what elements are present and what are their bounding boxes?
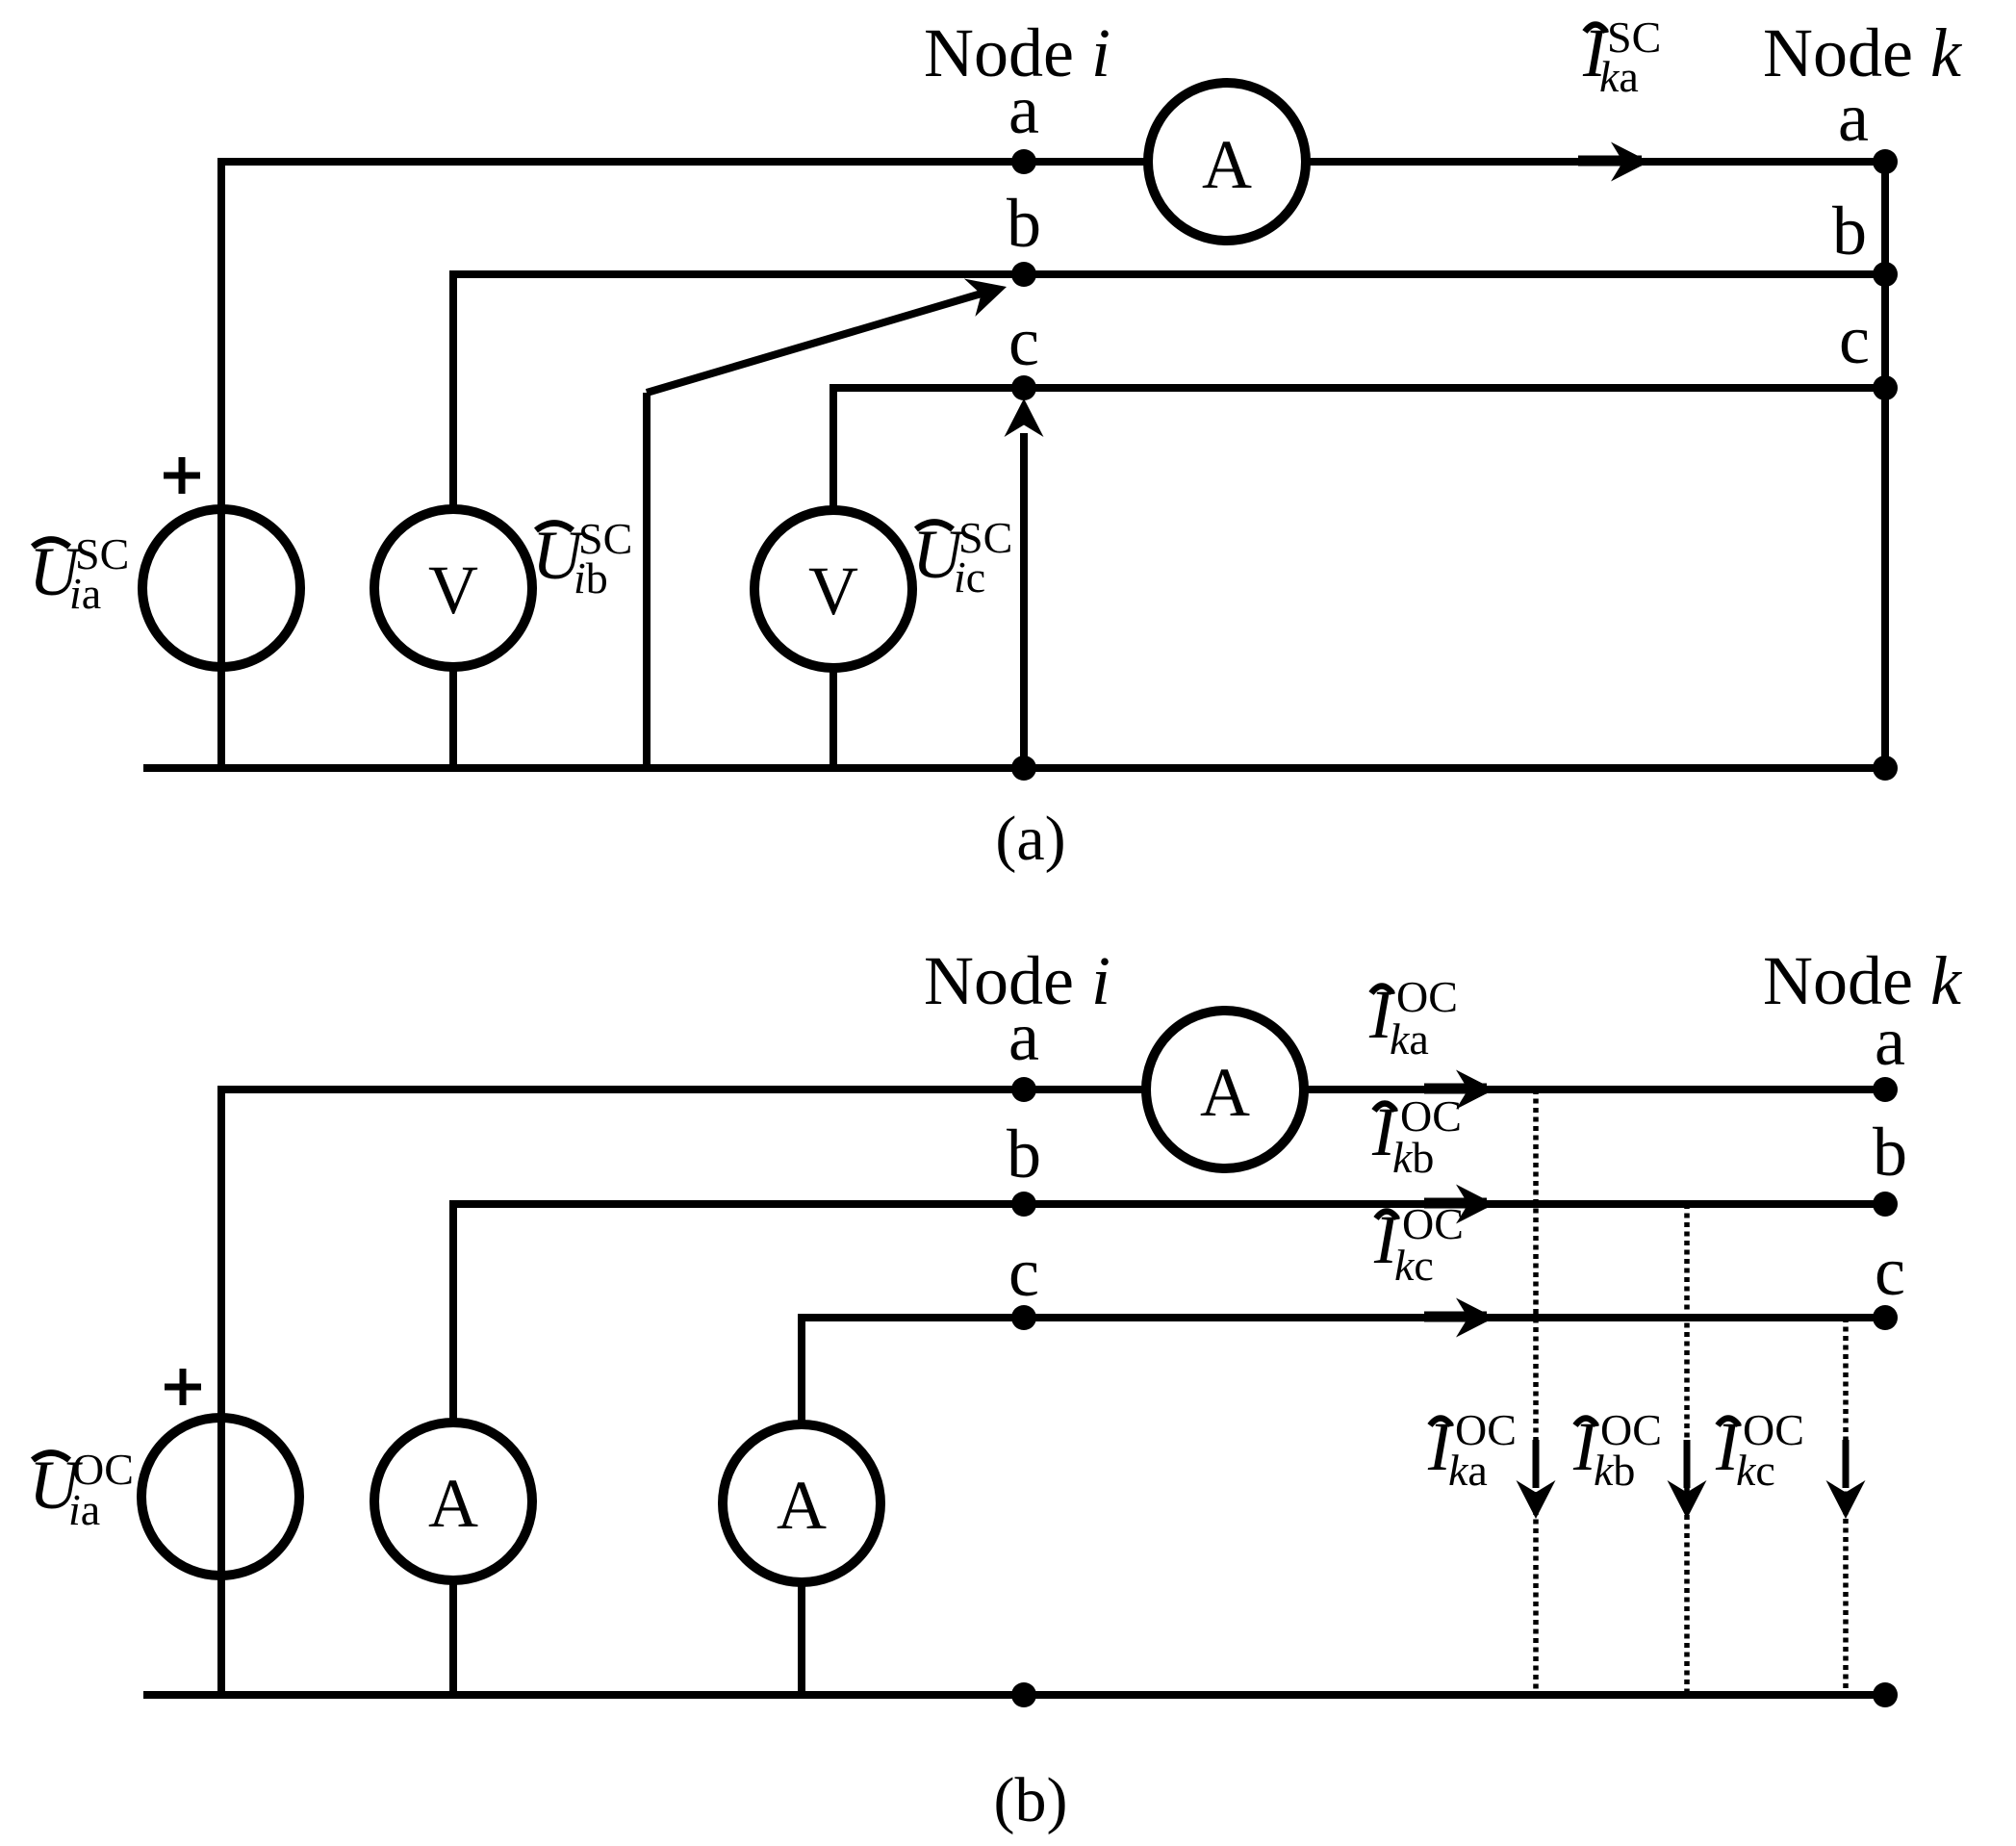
svg-text:ic: ic [954,552,985,602]
svg-text:a: a [1008,71,1039,148]
voltmeter V2 (a) [754,510,912,668]
svg-text:ia: ia [69,569,101,618]
wire: left vertical through source Uia (a) [217,158,225,768]
arrow: vertical voltage arrow up to node c (a) [1020,433,1028,768]
voltage source U_ia^SC circle (a) [142,509,300,667]
svg-text:a: a [1838,79,1869,156]
node k junction dot phase a (a) [1873,149,1898,174]
svg-text:V: V [808,552,858,629]
current label I_kc^OC above wire c (b) [1373,1199,1464,1290]
wire phase c from corner to node k (b) [802,1314,1885,1321]
node i junction dot phase b (b) [1011,1192,1036,1217]
wire: vertical through voltmeter V1 (a) [449,270,457,768]
svg-text:Node k: Node k [1763,942,1963,1019]
arrow: current arrow on wire c (b) [1424,1312,1487,1322]
node i junction dot phase c (a) [1011,375,1036,400]
dotted fictitious return path a (b) [1533,1090,1539,1692]
node i junction dot on bus (a) [1011,756,1036,781]
voltmeter label U_ic^SC (a) [912,513,1012,602]
svg-text:ka: ka [1448,1446,1488,1495]
svg-text:A: A [1202,126,1252,203]
voltage source label U_ia^OC (b) [29,1445,134,1534]
svg-text:c: c [1008,1234,1039,1311]
wire: vertical through ammeter A1 (b) [449,1200,457,1695]
svg-text:kb: kb [1594,1446,1635,1495]
node k terminal dot phase b (b) [1873,1192,1898,1217]
wire phase a from source top corner to node k (b) [221,1086,1885,1093]
voltmeter label U_ib^SC (a) [532,514,632,603]
wire: bottom return bus (b) [143,1691,1885,1699]
dotted fictitious return path c (b) [1843,1318,1849,1692]
plus polarity mark (a) [164,457,200,494]
arrow: down current arrow on dotted path a (b) [1533,1440,1540,1488]
svg-text:b: b [1873,1114,1907,1191]
svg-text:ka: ka [1390,1014,1429,1064]
svg-text:A: A [428,1465,478,1542]
svg-text:(b): (b) [994,1765,1068,1835]
wire: vertical through voltmeter V2 (a) [829,384,837,768]
arrow: current arrow on wire b (b) [1424,1198,1487,1209]
node i junction dot phase c (b) [1011,1305,1036,1330]
svg-text:ia: ia [68,1485,100,1534]
dotted fictitious return path b (b) [1684,1204,1690,1692]
wire phase b from corner to node k (a) [453,270,1885,278]
current label I_ka^SC (a) [1582,13,1661,101]
svg-text:A: A [777,1467,827,1544]
ammeter A2 on phase c branch (b) [723,1424,880,1582]
svg-text:kc: kc [1394,1241,1434,1290]
voltmeter V1 (a) [374,509,532,667]
node k terminal dot phase a (b) [1873,1077,1898,1102]
wire: vertical through ammeter A2 (b) [798,1314,805,1695]
node i junction dot phase a (b) [1011,1077,1036,1102]
current label I_kb^OC above wire b (b) [1371,1091,1462,1182]
wire phase c from corner to node k (a) [833,384,1885,392]
svg-text:a: a [1875,1003,1905,1080]
node k terminal dot on bus (b) [1873,1682,1898,1707]
arrow: current arrow on wire a (a) [1578,156,1642,167]
node k junction dot on bus (a) [1873,756,1898,781]
voltage source label U_ia^SC (a) [29,529,129,618]
plus polarity mark (b) [165,1369,201,1405]
wire phase b from corner to node k (b) [453,1200,1885,1208]
wire: bottom return bus (a) [143,764,1885,772]
node k junction dot phase b (a) [1873,262,1898,287]
node i junction dot phase b (a) [1011,262,1036,287]
current label I_ka^OC above wire a (b) [1368,972,1458,1064]
svg-text:b: b [1832,192,1867,269]
svg-text:A: A [1200,1054,1250,1131]
arrow: down current arrow on dotted path c (b) [1843,1440,1850,1488]
current label I_kc^OC near bus (b) [1715,1405,1804,1495]
svg-text:c: c [1008,303,1039,380]
node i junction dot on bus (b) [1011,1682,1036,1707]
arrow: current arrow on wire a (b) [1424,1084,1487,1094]
svg-text:b: b [1007,185,1041,262]
svg-text:c: c [1875,1233,1905,1310]
voltage source U_ia^OC circle (b) [141,1418,299,1576]
wire: right vertical short-circuit link at node k (a) [1881,162,1889,768]
svg-text:kc: kc [1736,1446,1775,1495]
svg-text:b: b [1007,1115,1041,1192]
node k junction dot phase c (a) [1873,375,1898,400]
svg-text:ka: ka [1599,52,1639,101]
ammeter A on wire a (b) [1146,1011,1304,1168]
current label I_kb^OC near bus (b) [1572,1405,1662,1495]
svg-text:ib: ib [574,553,608,603]
svg-text:c: c [1839,301,1870,378]
wire: vertical branch for Uib arrow (a) [643,393,651,768]
node k terminal dot phase c (b) [1873,1305,1898,1330]
svg-text:V: V [428,551,478,628]
ammeter A1 on phase b branch (b) [374,1423,532,1580]
current label I_ka^OC near bus (b) [1427,1405,1517,1495]
svg-text:a: a [1008,998,1039,1075]
arrow: diagonal voltage arrow to node b (a) [647,291,991,393]
wire phase a from source top corner to node k (a) [221,158,1885,166]
svg-text:kb: kb [1392,1133,1434,1182]
ammeter A on wire a (a) [1148,83,1306,241]
arrow: down current arrow on dotted path b (b) [1684,1440,1691,1488]
wire: left vertical through source Uia (b) [217,1086,225,1695]
node i junction dot phase a (a) [1011,149,1036,174]
svg-text:(a): (a) [995,804,1065,874]
